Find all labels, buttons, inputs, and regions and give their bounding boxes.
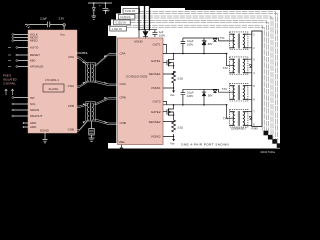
svg-text:0.5Ω: 0.5Ω bbox=[178, 126, 184, 130]
svg-text:ADD: ADD bbox=[30, 125, 37, 129]
svg-text:TX4: TX4 bbox=[223, 117, 228, 121]
svg-text:CPA: CPA bbox=[68, 55, 74, 59]
svg-text:AP/VALID: AP/VALID bbox=[30, 65, 44, 69]
svg-text:VSSK1: VSSK1 bbox=[151, 86, 161, 90]
svg-text:AUTO: AUTO bbox=[30, 46, 39, 50]
svg-text:0.1μF: 0.1μF bbox=[187, 39, 194, 43]
svg-text:1μF: 1μF bbox=[159, 30, 164, 34]
svg-text:1000BASE-T: 1000BASE-T bbox=[231, 127, 247, 131]
svg-text:FLASH: FLASH bbox=[49, 87, 59, 91]
svg-text:100V: 100V bbox=[159, 33, 165, 37]
svg-text:0.5Ω: 0.5Ω bbox=[178, 77, 184, 81]
svg-text:42912 TA01a: 42912 TA01a bbox=[260, 151, 275, 154]
svg-text:CPA: CPA bbox=[120, 52, 126, 56]
svg-text:3.3V RAIL: 3.3V RAIL bbox=[3, 82, 16, 86]
svg-text:SCL: SCL bbox=[30, 102, 36, 106]
svg-text:CPB: CPB bbox=[68, 104, 74, 108]
svg-text:CNA: CNA bbox=[68, 84, 74, 88]
svg-text:MID: MID bbox=[30, 59, 36, 63]
svg-text:0.13Ω 1%: 0.13Ω 1% bbox=[116, 23, 126, 25]
svg-text:SDAOUT: SDAOUT bbox=[30, 114, 43, 118]
svg-text:VEE: VEE bbox=[119, 140, 125, 144]
svg-text:0.13Ω 1%: 0.13Ω 1% bbox=[125, 11, 135, 13]
svg-text:CNB: CNB bbox=[68, 128, 74, 132]
svg-text:0.13Ω 1%: 0.13Ω 1% bbox=[120, 17, 130, 19]
svg-text:GATE2: GATE2 bbox=[151, 110, 161, 114]
svg-text:TX1: TX1 bbox=[220, 36, 225, 40]
svg-text:CNB: CNB bbox=[120, 121, 126, 125]
svg-text:CNA: CNA bbox=[120, 82, 126, 86]
svg-text:TX3: TX3 bbox=[222, 87, 227, 91]
svg-text:RESET: RESET bbox=[30, 53, 40, 57]
svg-text:0.1μF: 0.1μF bbox=[187, 91, 194, 95]
svg-text:SENSE1: SENSE1 bbox=[149, 72, 161, 76]
svg-text:58V: 58V bbox=[208, 93, 213, 97]
svg-text:AGND: AGND bbox=[134, 40, 144, 44]
svg-text:0.13Ω 1%: 0.13Ω 1% bbox=[112, 29, 122, 31]
svg-text:ONE 4-PAIR PORT SHOWN: ONE 4-PAIR PORT SHOWN bbox=[181, 143, 229, 147]
svg-text:DGND: DGND bbox=[40, 129, 50, 133]
svg-text:RJ45: RJ45 bbox=[252, 127, 259, 131]
svg-text:TX2: TX2 bbox=[223, 66, 228, 70]
svg-text:2.2μF: 2.2μF bbox=[40, 16, 47, 20]
svg-text:GATE1: GATE1 bbox=[151, 59, 161, 63]
svg-text:LTC4291/LTC4292: LTC4291/LTC4292 bbox=[126, 75, 148, 79]
svg-text:MISO: MISO bbox=[30, 39, 38, 43]
svg-text:OUT1: OUT1 bbox=[152, 43, 160, 47]
svg-text:-48V: -48V bbox=[104, 8, 110, 12]
svg-text:VSSK2: VSSK2 bbox=[151, 135, 161, 139]
svg-text:CPB: CPB bbox=[120, 96, 126, 100]
svg-text:58V: 58V bbox=[208, 42, 213, 46]
svg-text:100V: 100V bbox=[187, 94, 193, 98]
svg-text:+: + bbox=[99, 5, 101, 8]
svg-text:SENSE2: SENSE2 bbox=[149, 120, 161, 124]
svg-text:3.3V: 3.3V bbox=[59, 16, 65, 20]
svg-text:LTC4291-1: LTC4291-1 bbox=[45, 78, 59, 82]
svg-text:100V: 100V bbox=[187, 43, 193, 47]
svg-text:OUT2: OUT2 bbox=[152, 100, 160, 104]
svg-text:HX1188NL: HX1188NL bbox=[75, 51, 88, 55]
svg-text:SDAIN: SDAIN bbox=[30, 108, 39, 112]
svg-text:INT: INT bbox=[30, 96, 35, 100]
